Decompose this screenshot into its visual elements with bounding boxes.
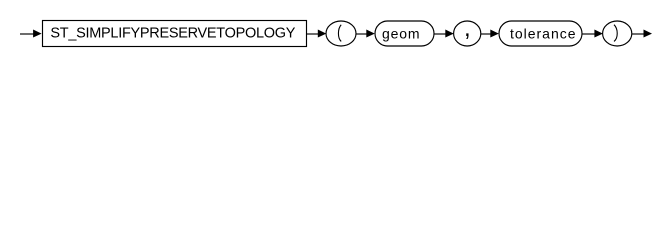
terminal oval ( bbox=[326, 21, 356, 46]
svg-text:ST_SIMPLIFYPRESERVETOPOLOGY: ST_SIMPLIFYPRESERVETOPOLOGY bbox=[50, 26, 295, 42]
arrowhead exit bbox=[644, 30, 652, 38]
wire bbox=[307, 33, 319, 35]
railroad syntax diagram ST_SIMPLIFYPRESERVETOPOLOGY bbox=[0, 0, 652, 58]
terminal oval ) bbox=[603, 21, 632, 46]
wire bbox=[582, 33, 595, 35]
background bbox=[0, 0, 652, 58]
svg-text:,: , bbox=[464, 15, 471, 42]
label ( bbox=[338, 25, 341, 42]
arrowhead into geom bbox=[366, 30, 375, 38]
arrowhead into ) bbox=[594, 30, 603, 38]
label ) bbox=[614, 25, 617, 42]
wire bbox=[481, 33, 491, 35]
parameter stadium geom bbox=[375, 21, 434, 46]
arrowhead into function box bbox=[33, 30, 42, 38]
arrowhead into tolerance bbox=[490, 30, 499, 38]
arrowhead into comma bbox=[445, 30, 454, 38]
svg-text:tolerance: tolerance bbox=[510, 26, 576, 42]
arrowhead into ( bbox=[318, 30, 327, 38]
wire bbox=[356, 33, 367, 35]
parameter stadium tolerance bbox=[499, 21, 582, 46]
wire bbox=[632, 33, 645, 35]
terminal oval comma bbox=[454, 21, 481, 46]
function name box bbox=[43, 21, 307, 47]
wire bbox=[435, 33, 447, 35]
svg-text:geom: geom bbox=[382, 26, 420, 42]
wire bbox=[20, 33, 34, 35]
